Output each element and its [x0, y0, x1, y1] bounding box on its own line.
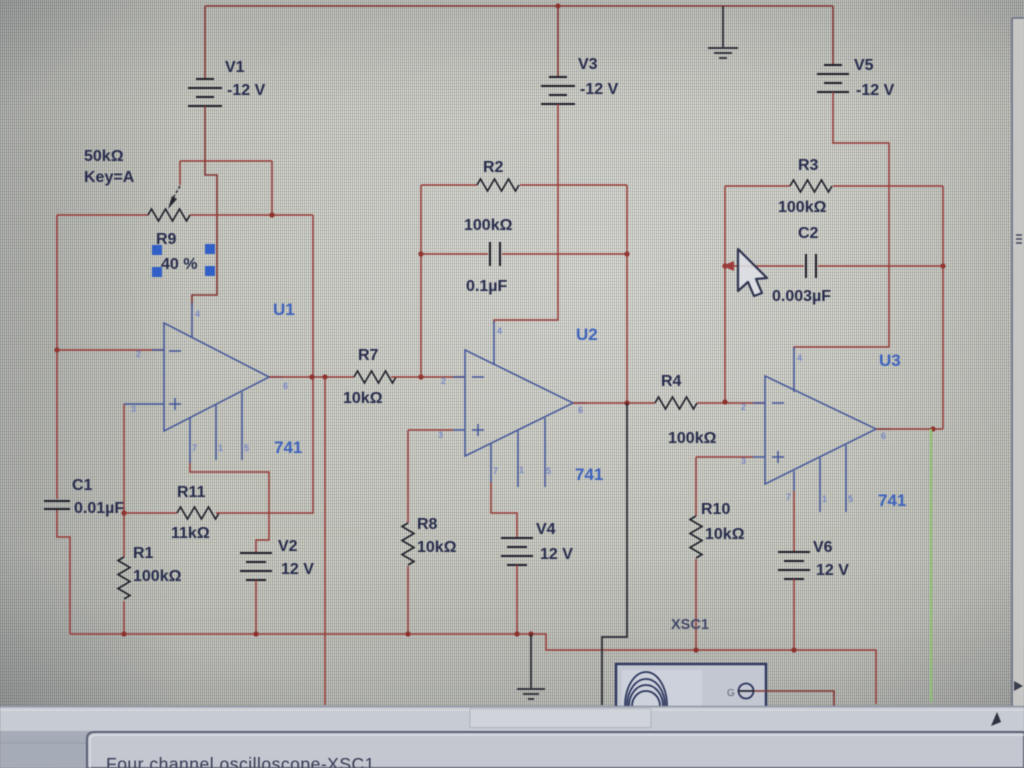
U2 pin5 stub [544, 418, 546, 487]
wire U1 non-inverting input vertical [123, 404, 125, 634]
svg-text:-12 V: -12 V [856, 82, 895, 99]
svg-text:5: 5 [546, 466, 551, 476]
wire R3 loop left vertical [724, 186, 726, 402]
panel grip marks [1016, 235, 1022, 243]
junction node inverting input [54, 347, 59, 352]
wire ground stub mid [530, 634, 532, 688]
wire U2 pin7 to V4 [491, 482, 517, 538]
battery V5 [817, 65, 849, 92]
resistor R3 body [790, 180, 832, 192]
wire V4 to bus [516, 565, 518, 634]
svg-text:U1: U1 [273, 300, 295, 319]
svg-text:4: 4 [497, 326, 502, 336]
svg-text:7: 7 [786, 492, 791, 502]
ground symbol mid [517, 689, 545, 699]
junction node R10-bus [693, 647, 698, 652]
U2 pin2 stub [453, 376, 465, 378]
junction node U2 output [624, 400, 629, 405]
wire G terminal cross [738, 690, 754, 692]
battery V6 [778, 552, 810, 579]
wire V1 top stub [204, 6, 206, 79]
junction node R8-bus [405, 631, 410, 636]
resistor R4 body [655, 397, 697, 409]
wire R2 loop right vertical to U2 output [626, 185, 628, 403]
svg-text:V4: V4 [536, 521, 556, 538]
U3 pin4 stub [793, 347, 795, 392]
svg-text:100kΩ: 100kΩ [778, 199, 827, 216]
svg-text:-12 V: -12 V [580, 81, 619, 98]
junction node V2-bus [253, 631, 258, 636]
wire R9 left lead [57, 214, 148, 216]
svg-text:R1: R1 [133, 545, 154, 562]
svg-text:100kΩ: 100kΩ [668, 430, 717, 447]
wire feedback down to U1 output [312, 215, 314, 377]
wire node to C1 [56, 350, 58, 499]
wire R9 loop right [271, 161, 273, 215]
svg-text:2: 2 [741, 402, 746, 412]
op-amp U2 [465, 350, 573, 456]
svg-text:4: 4 [797, 353, 802, 363]
wire C1 to ground bus [57, 510, 70, 634]
svg-text:10kΩ: 10kΩ [343, 390, 383, 407]
junction node R2C3 branch [418, 374, 423, 379]
svg-text:V3: V3 [578, 56, 598, 73]
U3 minus sign [772, 402, 784, 404]
junction node R11-R1 [121, 510, 126, 515]
U1 pin7 stub [189, 418, 191, 463]
drag arrow on C2 wire [722, 261, 734, 271]
junction node R3 loop to inverting input [722, 399, 727, 404]
resistor R7 body [354, 371, 396, 383]
svg-text:12 V: 12 V [281, 561, 314, 578]
wire U3 pin7 to V6 [793, 491, 795, 552]
junction node gnd-bus [528, 631, 533, 636]
wire R9 wiper loop top [180, 161, 272, 185]
svg-text:-12 V: -12 V [227, 82, 266, 99]
wire scope channel green [930, 429, 932, 702]
junction node V3 top [556, 4, 561, 9]
wire R3 left lead [725, 185, 790, 187]
mouse cursor [738, 249, 767, 296]
svg-text:7: 7 [493, 466, 498, 476]
oscilloscope window top [87, 732, 1024, 768]
U1 pin5 stub [241, 392, 243, 460]
junction node C3 left [418, 251, 423, 256]
svg-text:7: 7 [192, 443, 197, 453]
svg-text:U2: U2 [576, 325, 598, 344]
svg-text:4: 4 [195, 309, 200, 319]
svg-text:6: 6 [881, 431, 886, 441]
potentiometer R9 wiper arrow [168, 186, 180, 209]
svg-text:G: G [727, 688, 735, 699]
U2 plus sign [472, 424, 484, 436]
status strip above bottom window [0, 706, 1024, 731]
junction node bus-R1 [121, 631, 126, 636]
U3 pin1 stub [819, 458, 821, 512]
svg-text:Four channel oscilloscope-XSC1: Four channel oscilloscope-XSC1 [106, 754, 375, 768]
wire R11 left lead [124, 512, 177, 514]
wire C3 left lead [421, 253, 488, 255]
U3 pin6 output stub [876, 428, 890, 430]
resistor R8 body vertical [402, 523, 414, 565]
svg-text:50kΩ: 50kΩ [84, 148, 124, 165]
svg-text:100kΩ: 100kΩ [133, 568, 182, 585]
U1 minus sign [169, 350, 181, 352]
wire R10 vertical upper [695, 457, 697, 516]
svg-text:741: 741 [575, 465, 603, 484]
svg-text:V2: V2 [278, 538, 298, 555]
window edge behind left [0, 742, 87, 744]
svg-text:R11: R11 [177, 484, 206, 501]
svg-text:40 %: 40 % [161, 256, 197, 273]
U3 pin3 stub [753, 456, 765, 458]
svg-text:R2: R2 [483, 159, 504, 176]
svg-text:1: 1 [822, 494, 827, 504]
svg-text:3: 3 [438, 430, 443, 440]
junction node output-scope branch [322, 374, 327, 379]
svg-text:10kΩ: 10kΩ [705, 526, 745, 543]
svg-text:0.003µF: 0.003µF [772, 288, 831, 305]
U3 pin2 stub [753, 402, 765, 404]
svg-text:V1: V1 [225, 59, 245, 76]
small arrow marker bottom right [991, 712, 1001, 726]
wire scope channel B black [602, 403, 627, 705]
capacitor C3 0.1uF plates [490, 242, 500, 266]
U3 pin7 stub [793, 471, 795, 491]
wire R3 right lead [833, 185, 943, 187]
svg-text:0.1µF: 0.1µF [466, 278, 507, 295]
wire V3 top stub [557, 6, 559, 77]
wire ground top stub [722, 6, 724, 47]
selection handle R9 bottom-left [152, 267, 162, 277]
small arrow marker right edge [1014, 681, 1023, 691]
wire R3 loop right vertical to U3 output [942, 186, 944, 429]
svg-text:XSC1: XSC1 [671, 617, 709, 633]
junction node C2 right [940, 263, 945, 268]
wire V1 to U1 pin4 [192, 106, 217, 305]
wire U2 non-inverting input [408, 429, 453, 431]
wire U1 output [269, 376, 354, 378]
oscilloscope XSC1 box [616, 664, 766, 708]
svg-text:1: 1 [519, 465, 524, 475]
wire R2 left lead [421, 184, 477, 186]
svg-text:741: 741 [274, 438, 302, 457]
oscilloscope screen panel [622, 670, 702, 708]
U1 pin1 stub [215, 405, 217, 460]
svg-text:5: 5 [848, 494, 853, 504]
svg-text:11kΩ: 11kΩ [171, 525, 210, 542]
U1 pin6 output stub [269, 376, 283, 378]
junction node V4-bus [514, 631, 519, 636]
selection handle R9 top-left [152, 245, 162, 255]
svg-text:12 V: 12 V [816, 562, 849, 579]
battery V2 [240, 553, 272, 580]
wire V3 to U2 pin4 [494, 104, 558, 323]
wire U3 output [876, 428, 943, 430]
wire R11 right lead up to U1 output [216, 377, 313, 513]
svg-text:C1: C1 [72, 477, 93, 494]
wire R2 loop left vertical [420, 185, 422, 377]
svg-text:R4: R4 [661, 373, 682, 390]
wire V6 to bus [793, 579, 795, 650]
svg-text:U3: U3 [879, 351, 901, 370]
junction node V6-bus [791, 647, 796, 652]
wire C2 right lead [818, 265, 943, 267]
wire V5 to U3 pin4 [794, 92, 889, 350]
svg-text:6: 6 [578, 405, 583, 415]
wire U1 pin7 to V2 [190, 463, 269, 553]
wire R4 to U3 inverting input [697, 402, 765, 404]
U1 pin2 stub [152, 349, 164, 351]
junction node C2 left [722, 263, 727, 268]
selection handle R9 top-right [205, 244, 215, 254]
battery V4 [501, 538, 533, 565]
svg-text:V6: V6 [813, 539, 833, 556]
oscilloscope G terminal circle [739, 684, 754, 699]
wire U3 non-inverting input [696, 456, 753, 458]
wire U1 output to scope channel [324, 377, 326, 705]
svg-text:R8: R8 [417, 516, 438, 533]
oscilloscope icon arcs [625, 672, 667, 706]
wire U1 inverting input [57, 349, 164, 351]
U2 pin6 output stub [573, 402, 587, 404]
potentiometer R9 50k body [148, 209, 190, 221]
wire R8 vertical upper [407, 430, 409, 523]
resistor R10 body vertical [690, 516, 702, 558]
svg-text:C2: C2 [798, 225, 819, 242]
svg-text:R10: R10 [701, 501, 730, 518]
selection handle R9 bottom-right [205, 266, 215, 276]
svg-text:3: 3 [131, 404, 136, 414]
right side panel edge [1012, 18, 1024, 706]
U2 minus sign [472, 376, 484, 378]
svg-text:10kΩ: 10kΩ [417, 539, 457, 556]
junction node R9-wiper [269, 212, 274, 217]
wire C2 left lead [725, 265, 804, 267]
svg-text:5: 5 [244, 443, 249, 453]
svg-text:Key=A: Key=A [84, 169, 135, 186]
junction node C3 right [624, 251, 629, 256]
wire bottom ground bus [70, 634, 876, 704]
wire scope G to ground drop [754, 691, 834, 709]
U2 pin3 stub [453, 429, 465, 431]
junction node feedback-output [309, 374, 314, 379]
U2 pin7 stub [490, 444, 492, 482]
svg-text:12 V: 12 V [540, 546, 573, 563]
bottom area behind window [0, 731, 1024, 768]
U1 pin3 stub blue [124, 403, 164, 405]
U3 pin5 stub [845, 445, 847, 512]
wire left branch down to inverting input [56, 215, 58, 350]
svg-text:6: 6 [283, 381, 288, 391]
wire top bus corner to V5 [832, 6, 834, 65]
op-amp U3 [765, 376, 876, 484]
junction node U3 output scope branch [930, 426, 935, 431]
capacitor C1 [44, 501, 70, 509]
wire R7 to U2 inverting input [391, 376, 465, 378]
resistor R11 body [177, 507, 219, 519]
wire C3 right lead [502, 253, 627, 255]
U3 plus sign [772, 451, 784, 463]
U1 plus sign [169, 398, 181, 410]
resistor R2 body [477, 179, 519, 191]
wire R9 right lead to feedback node [190, 214, 313, 216]
battery V1 [188, 79, 222, 106]
svg-text:100kΩ: 100kΩ [464, 217, 513, 234]
svg-text:V5: V5 [854, 57, 874, 74]
wire R2 right lead [520, 184, 627, 186]
svg-text:1: 1 [218, 443, 223, 453]
svg-text:R7: R7 [358, 347, 379, 364]
U2 pin1 stub [517, 431, 519, 487]
wire V2 to bus [255, 580, 257, 634]
capacitor C2 plates [806, 254, 816, 278]
battery V3 [541, 77, 575, 104]
svg-text:0.01µF: 0.01µF [74, 500, 124, 517]
svg-text:741: 741 [878, 491, 906, 510]
resistor R1 body vertical [118, 557, 130, 599]
svg-text:2: 2 [136, 349, 141, 359]
op-amp U1 [164, 323, 269, 431]
wire top supply bus [205, 5, 833, 7]
wire U2 output [573, 402, 655, 404]
svg-text:R3: R3 [798, 157, 819, 174]
U2 pin4 stub [493, 321, 495, 365]
wire R10 to bus [695, 559, 697, 650]
wire R8 to bus [407, 566, 409, 634]
svg-text:2: 2 [441, 376, 446, 386]
U1 pin4 stub [191, 303, 193, 338]
ground symbol top [708, 48, 738, 58]
